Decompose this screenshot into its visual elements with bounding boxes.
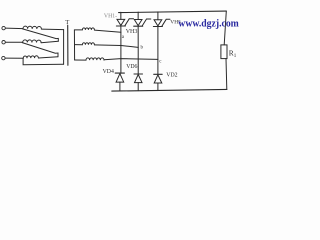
- terminal 2: [2, 41, 5, 44]
- wire terminal3 to primary winding 3: [5, 57, 23, 59]
- diode VD2: [154, 74, 163, 90]
- primary winding 2 (coil): [23, 40, 41, 43]
- secondary winding b (coil): [75, 43, 95, 45]
- svg-text:VH1-: VH1-: [104, 13, 117, 19]
- wire phase a to node a: [94, 30, 121, 32]
- thyristor VH1: [116, 12, 133, 26]
- bottom DC bus: [112, 89, 227, 91]
- secondary winding a (coil): [74, 28, 94, 30]
- svg-text:VD2: VD2: [166, 72, 177, 78]
- svg-text:VD6: VD6: [126, 64, 137, 70]
- thyristor VH3: [134, 12, 151, 26]
- svg-text:VH3: VH3: [126, 29, 138, 35]
- top DC bus: [119, 11, 227, 13]
- wire primary winding 2 right end: [41, 41, 58, 43]
- wire phase b to node b (crosses column 1): [94, 45, 138, 48]
- svg-text:www.dgzj.com: www.dgzj.com: [178, 19, 239, 30]
- terminal 1 (primary phase input): [2, 26, 5, 29]
- wire terminal1 to primary winding 1: [5, 27, 23, 30]
- wire terminal2 to primary winding 2: [5, 41, 22, 43]
- wire primary winding 3 right end: [38, 57, 58, 58]
- wire delta bottom return line: [23, 58, 64, 65]
- diode VD4: [115, 73, 124, 91]
- wire column 1 (VH1 cathode to node a to VD4): [120, 26, 122, 73]
- primary winding 3 (coil): [23, 56, 38, 59]
- resistor R1 body: [221, 45, 227, 59]
- wire top bus to resistor R1: [224, 11, 226, 45]
- wire delta diagonal 2 (w2 start to w3 end): [22, 43, 58, 57]
- secondary winding c (coil): [75, 58, 104, 60]
- wire primary winding 1 right end: [41, 28, 63, 31]
- thyristor VH5: [153, 12, 170, 27]
- wire phase c to node c (crosses columns 1 and 2): [104, 59, 158, 60]
- wire resistor R1 to bottom bus: [225, 59, 228, 90]
- svg-text:T: T: [65, 19, 69, 26]
- wire delta diagonal 1 (w1 start to w2 end): [23, 29, 59, 41]
- primary winding 1 (coil): [23, 26, 41, 29]
- svg-text:VD4: VD4: [103, 69, 114, 75]
- wire column 3 (VH5 cathode to node c to VD2): [157, 27, 159, 75]
- wire delta right vertical (w1 end to return): [63, 30, 65, 65]
- secondary star bus: [73, 30, 75, 60]
- transformer T core: [67, 25, 69, 65]
- wire column 2 (VH3 cathode to node b to VD6): [137, 26, 139, 74]
- terminal 3: [2, 56, 5, 59]
- diode VD6: [134, 74, 143, 91]
